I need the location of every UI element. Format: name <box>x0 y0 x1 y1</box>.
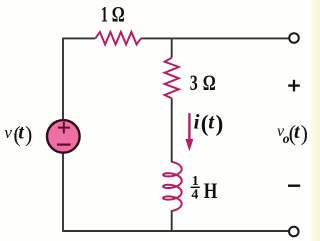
current label i(t) <box>194 109 224 136</box>
wire middle branch between R2 and L1 <box>171 98 173 162</box>
current arrow i(t) <box>185 113 193 151</box>
wire middle branch top stub <box>171 38 173 57</box>
svg-text:3: 3 <box>190 70 198 95</box>
terminal top-right <box>289 33 299 43</box>
voltage source V1 circle <box>47 120 80 153</box>
output minus sign <box>288 184 300 186</box>
source plus sign <box>58 122 70 133</box>
inductor L1 coil <box>163 162 182 211</box>
wire left branch upper <box>62 38 64 120</box>
terminal bottom-right <box>289 227 299 237</box>
svg-text:1: 1 <box>101 2 108 27</box>
output label vo(t) <box>277 121 308 147</box>
svg-text:): ) <box>301 121 308 146</box>
svg-text:t: t <box>18 123 24 144</box>
svg-text:): ) <box>216 111 224 136</box>
svg-text:4: 4 <box>191 188 198 203</box>
value label 1/4 fraction <box>191 174 218 203</box>
value label 1 ohm <box>101 2 125 27</box>
svg-text:): ) <box>25 122 32 147</box>
svg-text:H: H <box>204 178 218 203</box>
source label v(t) <box>4 122 32 147</box>
wire bottom rail <box>62 230 289 232</box>
wire top rail right of R1 to terminal <box>141 37 289 39</box>
wire top rail left of R1 <box>63 37 95 39</box>
resistor R2 3-ohm vertical zigzag <box>165 58 179 99</box>
output plus sign <box>288 80 300 92</box>
svg-text:i: i <box>194 109 200 133</box>
wire middle branch bottom stub <box>171 210 173 231</box>
resistor R1 1-ohm horizontal zigzag <box>95 32 141 44</box>
svg-text:v: v <box>4 123 12 142</box>
source minus sign <box>57 144 71 146</box>
wire left branch lower <box>62 154 64 232</box>
svg-text:Ω: Ω <box>203 70 216 95</box>
svg-text:Ω: Ω <box>112 2 125 27</box>
value label 3 ohm <box>190 70 216 95</box>
